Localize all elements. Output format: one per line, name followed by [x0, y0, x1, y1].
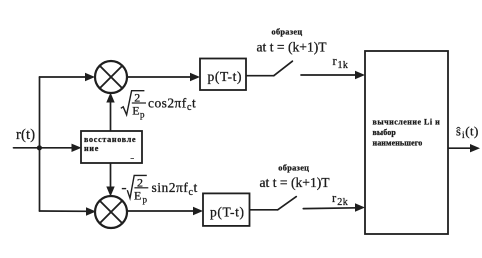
wire filter2 to switch2	[248, 209, 278, 211]
arrowhead into mixer1	[85, 73, 95, 81]
arrowhead output	[470, 144, 480, 152]
arrowhead carrier into mixer1 bottom	[106, 93, 114, 103]
svg-text:наименьшего: наименьшего	[373, 139, 423, 148]
wire switch1 blade	[274, 61, 293, 75]
svg-text:p(T-t): p(T-t)	[210, 205, 245, 220]
arrowhead into filter1	[190, 73, 200, 81]
arrowhead into recovery box	[72, 144, 82, 152]
node junction r(t)	[37, 145, 42, 150]
svg-text:at t = (k+1)T: at t = (k+1)T	[260, 175, 331, 191]
label -sqrt(2/Ep)sin carrier	[122, 175, 198, 204]
svg-text:2k: 2k	[337, 197, 348, 208]
svg-text:p: p	[143, 194, 148, 204]
svg-text:восстановле: восстановле	[84, 135, 136, 144]
arrowhead into mixer2	[86, 207, 96, 215]
svg-text:sin2πf: sin2πf	[152, 180, 189, 195]
label sqrt(2/Ep)cos carrier	[121, 91, 196, 120]
arrowhead carrier into mixer2 top	[106, 187, 114, 197]
svg-text:образец: образец	[278, 164, 309, 173]
wire carrier up to mixer1	[110, 101, 112, 131]
svg-text:образец: образец	[272, 27, 303, 36]
svg-text:r: r	[332, 191, 337, 205]
block carrier recovery (восстановление)	[81, 131, 142, 163]
wire switch2 output r2k	[303, 207, 357, 210]
wire r(t) input	[14, 147, 74, 149]
svg-text:E: E	[132, 104, 139, 118]
svg-text:p(T-t): p(T-t)	[208, 69, 243, 84]
svg-text:выбор: выбор	[373, 128, 397, 137]
svg-text:p: p	[140, 110, 145, 120]
svg-text:E: E	[134, 188, 141, 202]
wire carrier down to mixer2	[110, 163, 112, 188]
svg-text:ние: ние	[84, 144, 99, 153]
block decision (вычисление Li и выбор наименьшего)	[365, 51, 448, 234]
svg-text:at t = (k+1)T: at t = (k+1)T	[257, 39, 328, 55]
wire top branch	[40, 76, 88, 78]
wire switch1 output r1k	[301, 74, 357, 76]
svg-text:t: t	[194, 180, 198, 195]
label r1k	[333, 54, 349, 71]
mixer M1 (multiplier)	[95, 61, 127, 93]
wire mixer1 to filter1	[127, 76, 192, 78]
svg-text:(t): (t)	[465, 123, 478, 138]
block filter2 p(T-t)	[203, 193, 250, 226]
mixer M2 (multiplier)	[95, 196, 127, 228]
wire mixer2 to filter2	[128, 210, 196, 212]
svg-text:t: t	[192, 95, 196, 110]
svg-text:1k: 1k	[338, 60, 349, 71]
arrowhead r1k into decision box	[355, 71, 365, 79]
svg-text:вычисление Li и: вычисление Li и	[373, 118, 441, 127]
svg-text:cos2πf: cos2πf	[148, 95, 187, 110]
label output s_i(t)	[456, 123, 479, 141]
wire filter1 to switch1	[246, 75, 274, 77]
wire vertical bus	[39, 77, 41, 211]
svg-text:r(t): r(t)	[16, 127, 35, 143]
arrowhead r2k into decision box	[355, 203, 365, 211]
svg-text:ŝ: ŝ	[456, 124, 461, 138]
arrowhead into filter2	[193, 207, 203, 215]
wire switch2 blade	[278, 197, 297, 210]
block filter1 p(T-t)	[200, 59, 246, 91]
wire decision output	[448, 147, 471, 149]
wire bottom branch	[40, 210, 89, 212]
label r2k	[332, 191, 348, 208]
